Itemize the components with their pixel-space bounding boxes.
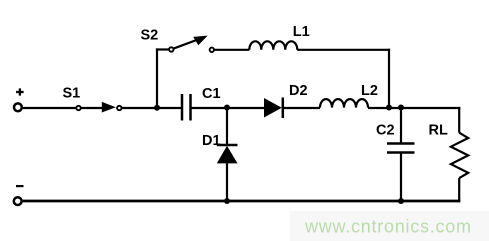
- switch S2 pole contact: [169, 47, 173, 51]
- svg-text:RL: RL: [429, 123, 448, 139]
- junction L1 return: [386, 105, 392, 111]
- junction node A (S2 tap): [154, 105, 160, 111]
- wire: L1 return drop to output node: [388, 49, 390, 108]
- svg-text:C2: C2: [376, 123, 395, 139]
- svg-text:L2: L2: [361, 83, 378, 99]
- wire: S1 throw to node A: [122, 107, 183, 109]
- switch S1 pole contact: [76, 106, 80, 110]
- wire: S2 throw to L1: [214, 49, 249, 51]
- svg-text:S2: S2: [141, 28, 159, 44]
- wire: L1 to right corner: [297, 49, 390, 51]
- inductor L2: [320, 99, 368, 108]
- watermark strip: [290, 211, 489, 241]
- wire: RL top lead: [458, 107, 460, 133]
- diode D2 cathode bar: [282, 98, 285, 119]
- wire: + terminal to S1: [22, 107, 76, 109]
- svg-text:S1: S1: [63, 86, 81, 102]
- wire: S1 pole to arrow: [81, 107, 103, 109]
- svg-text:D2: D2: [289, 83, 308, 99]
- svg-text:C1: C1: [202, 86, 221, 102]
- junction C2 bottom: [398, 198, 404, 204]
- wire: D2 cathode to L2: [283, 107, 320, 109]
- switch S2 blade: [173, 40, 198, 49]
- capacitor C1 left plate: [181, 94, 184, 121]
- diode D1: [217, 146, 238, 164]
- inductor L1: [249, 41, 297, 50]
- wire: D1 anode down to bottom rail: [226, 163, 228, 201]
- switch S2 blade arrowhead: [193, 36, 208, 46]
- wire: C1 to node B: [191, 107, 265, 109]
- diode D1 cathode bar: [217, 144, 238, 147]
- wire: RL bottom lead: [458, 178, 460, 202]
- capacitor C2 bottom plate: [387, 151, 415, 154]
- wire: S2 riser from node A: [156, 48, 158, 108]
- wire: S2 elbow to pole: [156, 48, 169, 50]
- wire: node B down to D1: [226, 108, 228, 145]
- terminal + (positive input): [14, 103, 22, 111]
- wire: bottom rail: [23, 200, 461, 203]
- switch S1 arrow: [102, 102, 116, 113]
- wire: C2 bottom plate to bottom rail: [400, 153, 402, 202]
- capacitor C2 top plate: [387, 142, 415, 145]
- svg-text:L1: L1: [293, 24, 310, 40]
- minus sign label: [16, 185, 24, 187]
- svg-text:www.cntronics.com: www.cntronics.com: [304, 217, 472, 237]
- resistor RL zigzag: [451, 133, 468, 178]
- diode D2: [264, 98, 282, 118]
- switch S1 throw contact: [117, 106, 121, 110]
- junction node B (C1/D1/D2): [224, 105, 230, 111]
- svg-text:D1: D1: [202, 133, 221, 149]
- switch S2 throw contact: [210, 48, 214, 52]
- plus sign label: [16, 88, 24, 95]
- wire: output node down to C2: [400, 108, 402, 144]
- terminal - (negative input): [14, 197, 22, 205]
- junction output node top: [398, 105, 404, 111]
- wire: L2 to output node: [368, 107, 460, 109]
- junction D1 bottom: [224, 198, 230, 204]
- capacitor C1 right plate: [189, 94, 192, 121]
